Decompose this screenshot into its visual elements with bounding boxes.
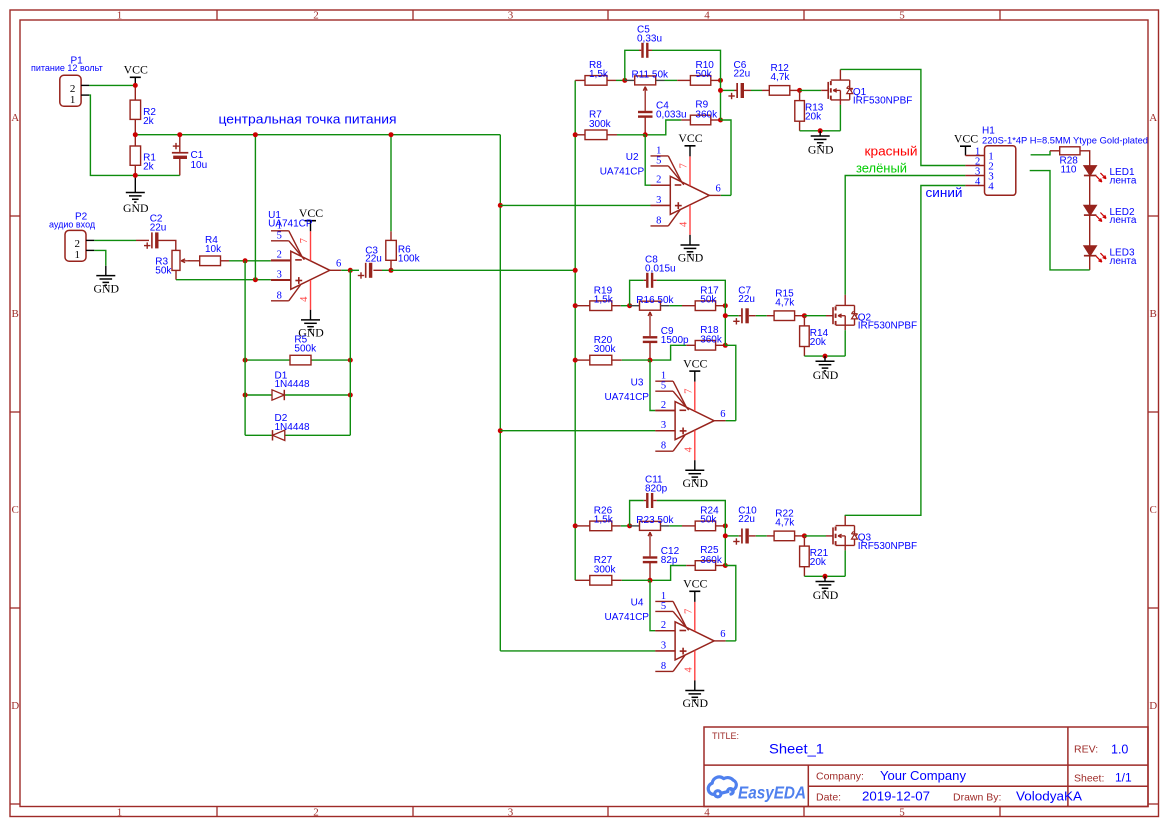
svg-text:2k: 2k [143,116,155,127]
svg-text:5: 5 [656,155,661,166]
svg-text:питание 12 вольт: питание 12 вольт [31,63,103,73]
svg-text:22u: 22u [738,294,755,305]
svg-text:R11 50k: R11 50k [632,70,670,81]
svg-text:2: 2 [661,400,666,411]
svg-text:4: 4 [975,177,981,188]
svg-text:красный: красный [865,144,918,159]
svg-text:1,5k: 1,5k [594,515,614,526]
svg-text:1: 1 [70,94,76,106]
svg-text:8: 8 [661,661,666,672]
svg-text:4,7k: 4,7k [775,518,795,529]
svg-text:VCC: VCC [678,131,702,145]
svg-text:22u: 22u [150,223,167,234]
svg-text:UA741CP: UA741CP [268,218,313,229]
svg-text:2: 2 [656,175,661,186]
svg-text:2: 2 [313,10,319,22]
svg-text:50k: 50k [155,266,172,277]
svg-text:50k: 50k [696,69,713,80]
svg-text:D: D [1149,700,1157,712]
svg-text:7: 7 [679,163,690,168]
svg-text:U4: U4 [631,598,644,609]
svg-text:GND: GND [123,201,149,215]
svg-text:360k: 360k [700,555,723,566]
svg-text:UA741CP: UA741CP [600,167,645,178]
svg-text:1,5k: 1,5k [594,295,614,306]
svg-text:5: 5 [899,807,905,819]
svg-text:220S-1*4P H=8.5MM Ytype Gold-p: 220S-1*4P H=8.5MM Ytype Gold-plated [982,136,1148,147]
svg-text:TITLE:: TITLE: [712,731,739,741]
svg-text:8: 8 [656,215,661,226]
svg-text:110: 110 [1061,165,1077,176]
svg-text:4: 4 [683,667,694,673]
svg-text:6: 6 [720,409,725,420]
svg-text:3: 3 [661,420,666,431]
svg-text:8: 8 [661,441,666,452]
svg-text:Sheet_1: Sheet_1 [769,741,824,757]
svg-text:VCC: VCC [124,63,148,77]
svg-text:4,7k: 4,7k [771,72,791,83]
svg-text:4,7k: 4,7k [775,298,795,309]
svg-text:R16 50k: R16 50k [636,295,674,306]
svg-text:20k: 20k [805,112,822,123]
svg-text:GND: GND [808,143,834,157]
svg-text:EasyEDA: EasyEDA [738,783,806,803]
svg-text:синий: синий [926,185,963,200]
svg-text:IRF530NPBF: IRF530NPBF [853,95,912,106]
svg-text:100k: 100k [398,253,421,264]
svg-text:300k: 300k [589,119,612,130]
svg-text:VCC: VCC [954,132,978,146]
svg-text:B: B [12,308,19,320]
svg-text:6: 6 [720,629,725,640]
svg-text:Drawn By:: Drawn By: [953,792,1001,804]
svg-text:аудио вход: аудио вход [49,220,96,230]
svg-text:22u: 22u [738,514,755,525]
svg-text:4: 4 [704,10,710,22]
svg-text:2: 2 [313,807,319,819]
svg-text:Date:: Date: [816,792,841,804]
svg-text:Your Company: Your Company [880,769,967,783]
svg-text:B: B [1150,308,1157,320]
svg-text:7: 7 [299,238,310,243]
svg-text:4: 4 [704,807,710,819]
svg-text:2019-12-07: 2019-12-07 [862,790,930,804]
svg-text:C: C [1150,504,1157,516]
svg-text:0,33u: 0,33u [637,33,662,44]
svg-text:20k: 20k [810,337,827,348]
svg-text:UA741CP: UA741CP [605,392,650,403]
svg-text:3: 3 [277,270,282,281]
svg-text:2k: 2k [143,162,155,173]
svg-text:300k: 300k [594,564,617,575]
svg-text:VCC: VCC [683,577,707,591]
svg-text:7: 7 [683,389,694,394]
svg-text:1,5k: 1,5k [589,69,609,80]
svg-text:360k: 360k [695,109,718,120]
svg-text:5: 5 [899,10,905,22]
svg-text:82p: 82p [661,555,678,566]
svg-text:4: 4 [679,221,690,227]
svg-text:1500p: 1500p [661,335,689,346]
svg-text:A: A [1149,112,1157,124]
svg-text:5: 5 [277,230,282,241]
svg-text:5: 5 [661,381,666,392]
svg-text:4: 4 [988,181,994,193]
svg-text:10u: 10u [191,160,208,171]
svg-text:20k: 20k [810,557,827,568]
svg-text:GND: GND [813,588,839,602]
svg-text:GND: GND [813,368,839,382]
svg-text:UA741CP: UA741CP [605,612,650,623]
svg-text:3: 3 [656,195,661,206]
svg-text:REV:: REV: [1074,744,1098,756]
svg-text:22u: 22u [734,69,751,80]
svg-text:6: 6 [336,259,341,270]
svg-text:1: 1 [117,10,123,22]
svg-text:VolodyaKA: VolodyaKA [1016,790,1083,804]
svg-text:2: 2 [277,250,282,261]
svg-text:1N4448: 1N4448 [275,422,310,433]
svg-text:7: 7 [683,609,694,614]
svg-text:3: 3 [508,807,514,819]
svg-text:1/1: 1/1 [1115,771,1132,785]
svg-text:0,015u: 0,015u [645,263,676,274]
svg-text:лента: лента [1110,215,1137,226]
svg-text:GND: GND [94,281,120,295]
svg-text:50k: 50k [700,515,717,526]
svg-text:500k: 500k [294,343,317,354]
svg-text:5: 5 [661,601,666,612]
svg-text:GND: GND [683,476,709,490]
svg-text:U2: U2 [626,152,639,163]
svg-text:4: 4 [683,446,694,452]
svg-text:IRF530NPBF: IRF530NPBF [858,541,917,552]
svg-text:50k: 50k [700,295,717,306]
svg-text:центральная точка питания: центральная точка питания [219,111,397,126]
svg-text:22u: 22u [365,254,382,265]
svg-text:3: 3 [508,10,514,22]
svg-text:IRF530NPBF: IRF530NPBF [858,321,917,332]
svg-text:D: D [11,700,19,712]
svg-text:R23 50k: R23 50k [636,515,674,526]
svg-text:лента: лента [1110,256,1137,267]
svg-text:1: 1 [74,249,80,261]
svg-text:U3: U3 [631,378,644,389]
svg-text:0,033u: 0,033u [656,110,687,121]
svg-text:Sheet:: Sheet: [1074,773,1104,785]
svg-text:8: 8 [277,290,282,301]
svg-text:GND: GND [678,251,704,265]
svg-text:3: 3 [661,640,666,651]
svg-text:360k: 360k [700,335,723,346]
svg-text:Company:: Company: [816,771,864,783]
svg-text:A: A [11,112,19,124]
svg-text:1N4448: 1N4448 [275,379,310,390]
svg-text:1: 1 [117,807,123,819]
svg-text:GND: GND [683,696,709,710]
svg-text:10k: 10k [205,244,222,255]
svg-text:1.0: 1.0 [1111,743,1128,757]
svg-text:300k: 300k [594,344,617,355]
svg-text:зелёный: зелёный [856,160,907,175]
svg-text:C: C [12,504,19,516]
svg-text:лента: лента [1110,176,1137,187]
svg-text:VCC: VCC [683,357,707,371]
svg-text:4: 4 [299,296,310,302]
svg-text:6: 6 [715,184,720,195]
svg-text:2: 2 [661,620,666,631]
svg-text:820p: 820p [645,484,668,495]
